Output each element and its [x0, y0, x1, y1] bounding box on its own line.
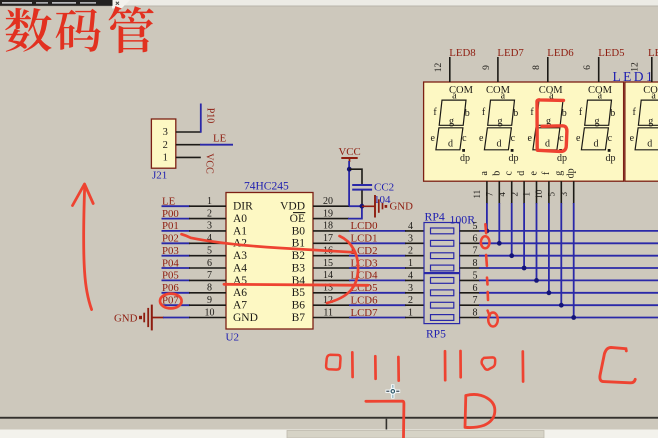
RP right pin 8 — [460, 317, 480, 319]
RP right pin 5 — [460, 230, 480, 232]
junction node dp — [571, 315, 576, 320]
RP right pin 7 — [460, 304, 480, 306]
svg-text:b: b — [513, 108, 518, 119]
red mark around digit3 upper — [537, 100, 564, 150]
wire P03 — [162, 255, 191, 257]
red mark around digit3 lower loop — [538, 126, 567, 152]
svg-text:c: c — [511, 133, 516, 144]
wire LCD5 — [349, 292, 406, 294]
red letter C — [600, 347, 635, 382]
svg-text:1: 1 — [207, 196, 212, 207]
svg-text:c: c — [608, 133, 613, 144]
svg-text:6: 6 — [207, 258, 212, 269]
wire LE — [162, 205, 191, 207]
svg-text:e: e — [529, 171, 540, 176]
svg-text:A0: A0 — [233, 213, 247, 225]
svg-text:GND: GND — [114, 313, 138, 325]
pin 3 stub of J21 — [176, 131, 201, 133]
junction node e — [534, 278, 539, 283]
connector J21 — [151, 119, 175, 182]
U2 pin 7 — [189, 279, 226, 281]
red hook arc — [327, 236, 358, 303]
svg-text:b: b — [465, 108, 470, 119]
svg-text:1: 1 — [408, 308, 413, 319]
svg-text:17: 17 — [323, 233, 333, 244]
display LED1 block 2 body — [625, 82, 658, 181]
wire LCD1 — [349, 242, 406, 244]
svg-text:3: 3 — [408, 233, 413, 244]
svg-text:4: 4 — [408, 221, 413, 232]
scrollbar thumb — [287, 431, 544, 438]
U2 pin 18 — [313, 230, 350, 232]
svg-text:6: 6 — [473, 283, 478, 294]
display segment pin 10 — [548, 181, 550, 204]
svg-text:dp: dp — [509, 153, 519, 164]
svg-text:LED7: LED7 — [497, 47, 524, 59]
resistor pack left pin 4 — [405, 230, 424, 232]
svg-text:18: 18 — [323, 221, 333, 232]
svg-text:P05: P05 — [162, 270, 179, 282]
svg-text:11: 11 — [323, 307, 333, 318]
cursor crosshair — [386, 384, 401, 398]
wire P06 — [162, 292, 191, 294]
scrollbar track — [0, 430, 658, 438]
svg-text:LED4: LED4 — [648, 47, 658, 59]
svg-text:c: c — [504, 171, 515, 176]
svg-text:A6: A6 — [233, 287, 247, 299]
U2 pin 5 — [189, 255, 226, 257]
wire segment bus row 8 — [479, 317, 658, 319]
red letter D — [465, 394, 495, 427]
svg-text:LCD3: LCD3 — [351, 257, 378, 269]
RP right pin 7 — [460, 255, 480, 257]
svg-text:P02: P02 — [162, 233, 179, 245]
wire bottom horizontal — [0, 417, 658, 419]
svg-text:b: b — [562, 108, 567, 119]
svg-text:5: 5 — [473, 221, 478, 232]
svg-text:LCD1: LCD1 — [351, 233, 378, 245]
svg-text:b: b — [491, 171, 502, 176]
svg-text:2: 2 — [408, 246, 413, 257]
resistor element 3 of RP4/RP5 — [431, 253, 454, 259]
digit1 dp dot — [462, 149, 465, 152]
chinese char 管 — [109, 6, 154, 53]
RP right pin 8 — [460, 267, 480, 269]
svg-text:12: 12 — [631, 62, 641, 72]
svg-text:COM: COM — [449, 85, 474, 96]
svg-text:LED5: LED5 — [598, 47, 624, 59]
svg-text:100R: 100R — [450, 213, 476, 227]
svg-text:J21: J21 — [152, 170, 167, 182]
svg-text:GND: GND — [390, 201, 414, 213]
junction VDD node — [360, 204, 365, 209]
svg-text:2: 2 — [207, 208, 212, 219]
svg-text:P00: P00 — [162, 208, 179, 220]
svg-text:COM: COM — [539, 85, 564, 96]
junction node f — [547, 290, 552, 295]
svg-text:3: 3 — [163, 127, 168, 138]
svg-text:VDD: VDD — [280, 201, 305, 213]
svg-text:P04: P04 — [162, 257, 179, 269]
svg-text:3: 3 — [408, 283, 413, 294]
wire segment c vertical — [511, 203, 513, 256]
chinese char 码 — [56, 9, 101, 52]
svg-text:1: 1 — [408, 258, 413, 269]
svg-text:6: 6 — [473, 233, 478, 244]
U2 pin 15 — [313, 267, 350, 269]
U2 pin 14 — [313, 279, 350, 281]
junction node c — [509, 253, 514, 258]
svg-text:10: 10 — [205, 307, 215, 318]
U2 pin 17 — [313, 242, 350, 244]
svg-text:14: 14 — [323, 270, 333, 281]
red bottom loop — [488, 311, 490, 316]
digit4 segment outline lower — [581, 128, 608, 150]
U2 pin 20 — [313, 205, 350, 207]
svg-text:RP5: RP5 — [426, 329, 446, 341]
resistor pack RP4/RP5 body — [424, 209, 475, 340]
svg-text:74HC245: 74HC245 — [244, 181, 289, 193]
svg-text:dp: dp — [566, 168, 577, 178]
wire segment bus row 3 — [479, 255, 658, 257]
wire VDD to junction — [349, 205, 362, 207]
wire P01 — [162, 230, 191, 232]
svg-text:LCD0: LCD0 — [351, 220, 378, 232]
svg-text:LCD7: LCD7 — [351, 307, 379, 319]
resistor pack left pin 4 — [405, 279, 424, 281]
svg-text:dp: dp — [606, 153, 616, 164]
display LED digits block 1 body — [424, 82, 624, 181]
svg-text:a: a — [479, 171, 490, 176]
svg-text:8: 8 — [532, 65, 542, 70]
svg-text:COM: COM — [486, 85, 511, 96]
digit1 segment outline upper — [439, 100, 466, 125]
svg-text:LED6: LED6 — [547, 47, 574, 59]
svg-text:dp: dp — [460, 153, 470, 164]
power port VCC — [339, 146, 361, 162]
svg-text:7: 7 — [485, 191, 495, 196]
wire LCD2 — [349, 255, 406, 257]
svg-text:g: g — [648, 116, 653, 127]
svg-text:c: c — [462, 133, 467, 144]
red small zero loop — [481, 236, 490, 248]
svg-text:c: c — [559, 133, 564, 144]
wire VCC down — [348, 161, 350, 206]
svg-text:4: 4 — [408, 270, 413, 281]
svg-text:1: 1 — [163, 153, 168, 164]
U2 pin 2 — [189, 218, 226, 220]
svg-text:d: d — [545, 139, 550, 150]
svg-text:e: e — [576, 133, 581, 144]
red dash 4 — [486, 292, 489, 300]
wire P07 — [162, 304, 191, 306]
svg-text:e: e — [430, 133, 435, 144]
wire P02 — [162, 242, 191, 244]
svg-text:DIR: DIR — [233, 201, 253, 213]
svg-text:2: 2 — [408, 295, 413, 306]
wire OE jog — [348, 206, 362, 218]
OE overline — [293, 212, 305, 214]
svg-text:g: g — [498, 116, 503, 127]
U2 pin 1 — [189, 205, 226, 207]
svg-text:B6: B6 — [292, 300, 306, 312]
svg-text:7: 7 — [473, 295, 478, 306]
svg-text:B0: B0 — [292, 225, 306, 237]
svg-text:d: d — [516, 171, 527, 176]
digit3 segment outline upper — [536, 100, 563, 125]
resistor pack left pin 2 — [405, 255, 424, 257]
display COM pin wire LED8 — [449, 57, 451, 82]
wire segment f vertical — [548, 203, 550, 293]
svg-text:9: 9 — [482, 65, 492, 70]
pin 1 stub of J21 — [176, 156, 201, 158]
svg-text:5: 5 — [207, 246, 212, 257]
resistor element 8 of RP4/RP5 — [431, 315, 454, 321]
svg-text:11: 11 — [472, 190, 482, 199]
resistor element 4 of RP4/RP5 — [431, 265, 454, 271]
svg-text:COM: COM — [588, 85, 613, 96]
digit2 segment outline upper — [488, 100, 515, 125]
red dash 1 — [484, 224, 487, 233]
resistor pack left pin 1 — [405, 267, 424, 269]
red digit 0 — [326, 355, 340, 370]
svg-text:GND: GND — [233, 312, 258, 324]
capacitor CC2 lead top — [349, 169, 362, 184]
svg-text:3: 3 — [207, 221, 212, 232]
svg-text:LCD6: LCD6 — [351, 295, 379, 307]
svg-text:dp: dp — [557, 153, 567, 164]
U2 pin 19 — [313, 218, 349, 220]
wire P04 — [162, 267, 191, 269]
ground GND left power port — [114, 305, 164, 331]
display segment pin 7 — [498, 181, 500, 204]
svg-text:P01: P01 — [162, 220, 179, 232]
digit4 segment outline upper — [585, 100, 612, 125]
display 2 COM pin wire — [651, 57, 653, 82]
svg-text:VCC: VCC — [339, 146, 361, 158]
svg-text:g: g — [449, 116, 454, 127]
red digit 0 second — [482, 357, 496, 369]
svg-text:g: g — [595, 116, 600, 127]
red squiggle from P02 — [182, 234, 355, 252]
svg-text:COM: COM — [643, 85, 658, 96]
wire segment g vertical — [560, 203, 562, 305]
svg-text:e: e — [527, 133, 532, 144]
resistor pack left pin 2 — [405, 304, 424, 306]
svg-text:1: 1 — [522, 192, 532, 197]
svg-text:B3: B3 — [292, 262, 306, 274]
digit3 segment outline lower — [533, 128, 560, 150]
wire LCD4 — [349, 279, 406, 281]
junction node d — [522, 266, 527, 271]
svg-text:3: 3 — [559, 191, 569, 196]
svg-text:LE: LE — [162, 196, 176, 208]
svg-text:8: 8 — [473, 258, 478, 269]
svg-text:4: 4 — [497, 191, 507, 196]
U2 pin 11 — [313, 317, 350, 319]
U2 pin 10 — [189, 317, 226, 319]
svg-text:P03: P03 — [162, 245, 179, 257]
svg-text:RP4: RP4 — [425, 209, 445, 223]
svg-text:d: d — [647, 139, 652, 150]
svg-text:B7: B7 — [292, 312, 306, 324]
svg-text:g: g — [553, 171, 564, 176]
digit1 segment outline lower — [436, 128, 463, 150]
capacitor CC2 lead bottom — [361, 190, 363, 206]
red letter 7 — [366, 401, 404, 437]
svg-text:d: d — [497, 139, 502, 150]
wire P05 — [162, 279, 191, 281]
svg-text:B2: B2 — [292, 250, 306, 262]
wire P00 — [162, 218, 191, 220]
wire segment bus row 4 — [479, 267, 658, 269]
svg-text:OE: OE — [290, 213, 305, 225]
wire segment e vertical — [536, 203, 538, 280]
wire LCD6 — [349, 304, 406, 306]
display segment pin 11 — [486, 181, 488, 204]
wire segment b vertical — [498, 203, 500, 243]
svg-text:10: 10 — [534, 189, 544, 199]
digit2 segment outline lower — [484, 128, 511, 150]
svg-text:12: 12 — [434, 63, 444, 73]
U2 pin 3 — [189, 230, 226, 232]
svg-text:LE: LE — [213, 133, 227, 145]
svg-text:d: d — [594, 139, 599, 150]
U2 pin 8 — [189, 292, 226, 294]
wire LCD7 — [349, 317, 406, 319]
recorder overlay tab — [0, 0, 658, 9]
wire bottom tick — [386, 419, 388, 431]
svg-text:b: b — [610, 108, 615, 119]
digit5 segment outline lower — [635, 128, 658, 150]
wire LE — [200, 144, 233, 146]
U2 pin 4 — [189, 242, 226, 244]
resistor element 1 of RP4/RP5 — [431, 228, 454, 234]
red arrow annotation — [84, 186, 92, 310]
resistor pack left pin 3 — [405, 242, 424, 244]
display COM pin wire LED5 — [598, 57, 600, 82]
svg-text:d: d — [448, 139, 453, 150]
resistor pack left pin 3 — [405, 292, 424, 294]
resistor element 2 of RP4/RP5 — [431, 240, 454, 246]
red digit 1 strokes — [351, 352, 354, 377]
display segment pin 1 — [536, 181, 538, 204]
svg-text:15: 15 — [323, 258, 333, 269]
red dash 3 — [486, 278, 489, 285]
svg-text:e: e — [479, 133, 484, 144]
handwritten red title 数码管 (7-segment display) — [5, 6, 154, 53]
svg-text:CC2: CC2 — [374, 181, 394, 193]
wire P10 vertical — [200, 104, 202, 133]
svg-text:U2: U2 — [226, 332, 239, 344]
U2 pin 9 — [189, 304, 226, 306]
svg-text:7: 7 — [473, 246, 478, 257]
U2 pin 16 — [313, 255, 350, 257]
wire segment bus row 6 — [479, 292, 658, 294]
red dash 2 — [485, 255, 488, 266]
digit2 dp dot — [511, 149, 514, 152]
resistor element 6 of RP4/RP5 — [431, 290, 454, 296]
digit3 dp dot — [559, 149, 562, 152]
wire segment bus row 2 — [479, 242, 658, 244]
svg-text:A4: A4 — [233, 262, 247, 274]
svg-text:9: 9 — [207, 295, 212, 306]
display segment pin 4 — [511, 181, 513, 204]
wire segment bus row 1 — [479, 230, 658, 232]
digit4 dp dot — [608, 149, 611, 152]
digit5 segment outline upper — [638, 100, 658, 125]
svg-text:A3: A3 — [233, 250, 247, 262]
svg-text:20: 20 — [323, 196, 333, 207]
junction node g — [559, 303, 564, 308]
wire LCD0 — [349, 230, 406, 232]
pin 2 stub of J21 — [176, 144, 201, 146]
display segment pin 2 — [523, 181, 525, 204]
red line through A5/B4 row — [224, 284, 368, 285]
red digit 1 last — [521, 352, 524, 382]
svg-text:8: 8 — [207, 283, 212, 294]
wire segment d vertical — [523, 203, 525, 268]
RP right pin 5 — [460, 279, 480, 281]
svg-text:LCD4: LCD4 — [351, 270, 379, 282]
U2 pin 13 — [313, 292, 350, 294]
RP right pin 6 — [460, 292, 480, 294]
chinese char 数 — [5, 8, 52, 52]
U2 pin 12 — [313, 304, 350, 306]
junction node a — [485, 229, 490, 234]
wire LCD3 — [349, 267, 406, 269]
junction node b — [497, 241, 502, 246]
svg-text:5: 5 — [473, 270, 478, 281]
svg-text:P10: P10 — [205, 108, 216, 124]
svg-text:A1: A1 — [233, 225, 247, 237]
display segment pin 5 — [560, 181, 562, 204]
svg-text:B5: B5 — [292, 287, 306, 299]
red circle around P07 — [160, 294, 182, 309]
svg-text:8: 8 — [473, 308, 478, 319]
IC U2 74HC245 body — [226, 181, 314, 344]
resistor element 5 of RP4/RP5 — [431, 278, 454, 284]
svg-text:e: e — [630, 133, 635, 144]
svg-text:7: 7 — [207, 270, 212, 281]
wire segment bus row 7 — [479, 304, 658, 306]
wire segment bus row 5 — [479, 279, 658, 281]
svg-text:A7: A7 — [233, 300, 247, 312]
svg-text:19: 19 — [323, 208, 333, 219]
U2 pin 6 — [189, 267, 226, 269]
svg-text:2: 2 — [509, 192, 519, 197]
svg-text:VCC: VCC — [203, 153, 214, 174]
ground GND right power port — [362, 195, 413, 218]
RP right pin 6 — [460, 242, 480, 244]
junction on VCC wire — [347, 167, 352, 172]
wire segment dp vertical — [573, 203, 575, 318]
svg-text:6: 6 — [583, 65, 593, 70]
capacitor CC2 plates — [352, 184, 372, 186]
display COM pin wire LED7 — [497, 57, 499, 82]
svg-text:5: 5 — [547, 191, 557, 196]
resistor pack left pin 1 — [405, 317, 424, 319]
svg-text:2: 2 — [163, 140, 168, 151]
resistor element 7 of RP4/RP5 — [431, 302, 454, 308]
wire segment a vertical — [486, 203, 488, 231]
display COM pin wire LED6 — [547, 57, 549, 82]
svg-text:LED8: LED8 — [449, 47, 475, 59]
display segment pin 3 — [573, 181, 575, 204]
wire GND to U2 pin 10 — [163, 317, 190, 319]
